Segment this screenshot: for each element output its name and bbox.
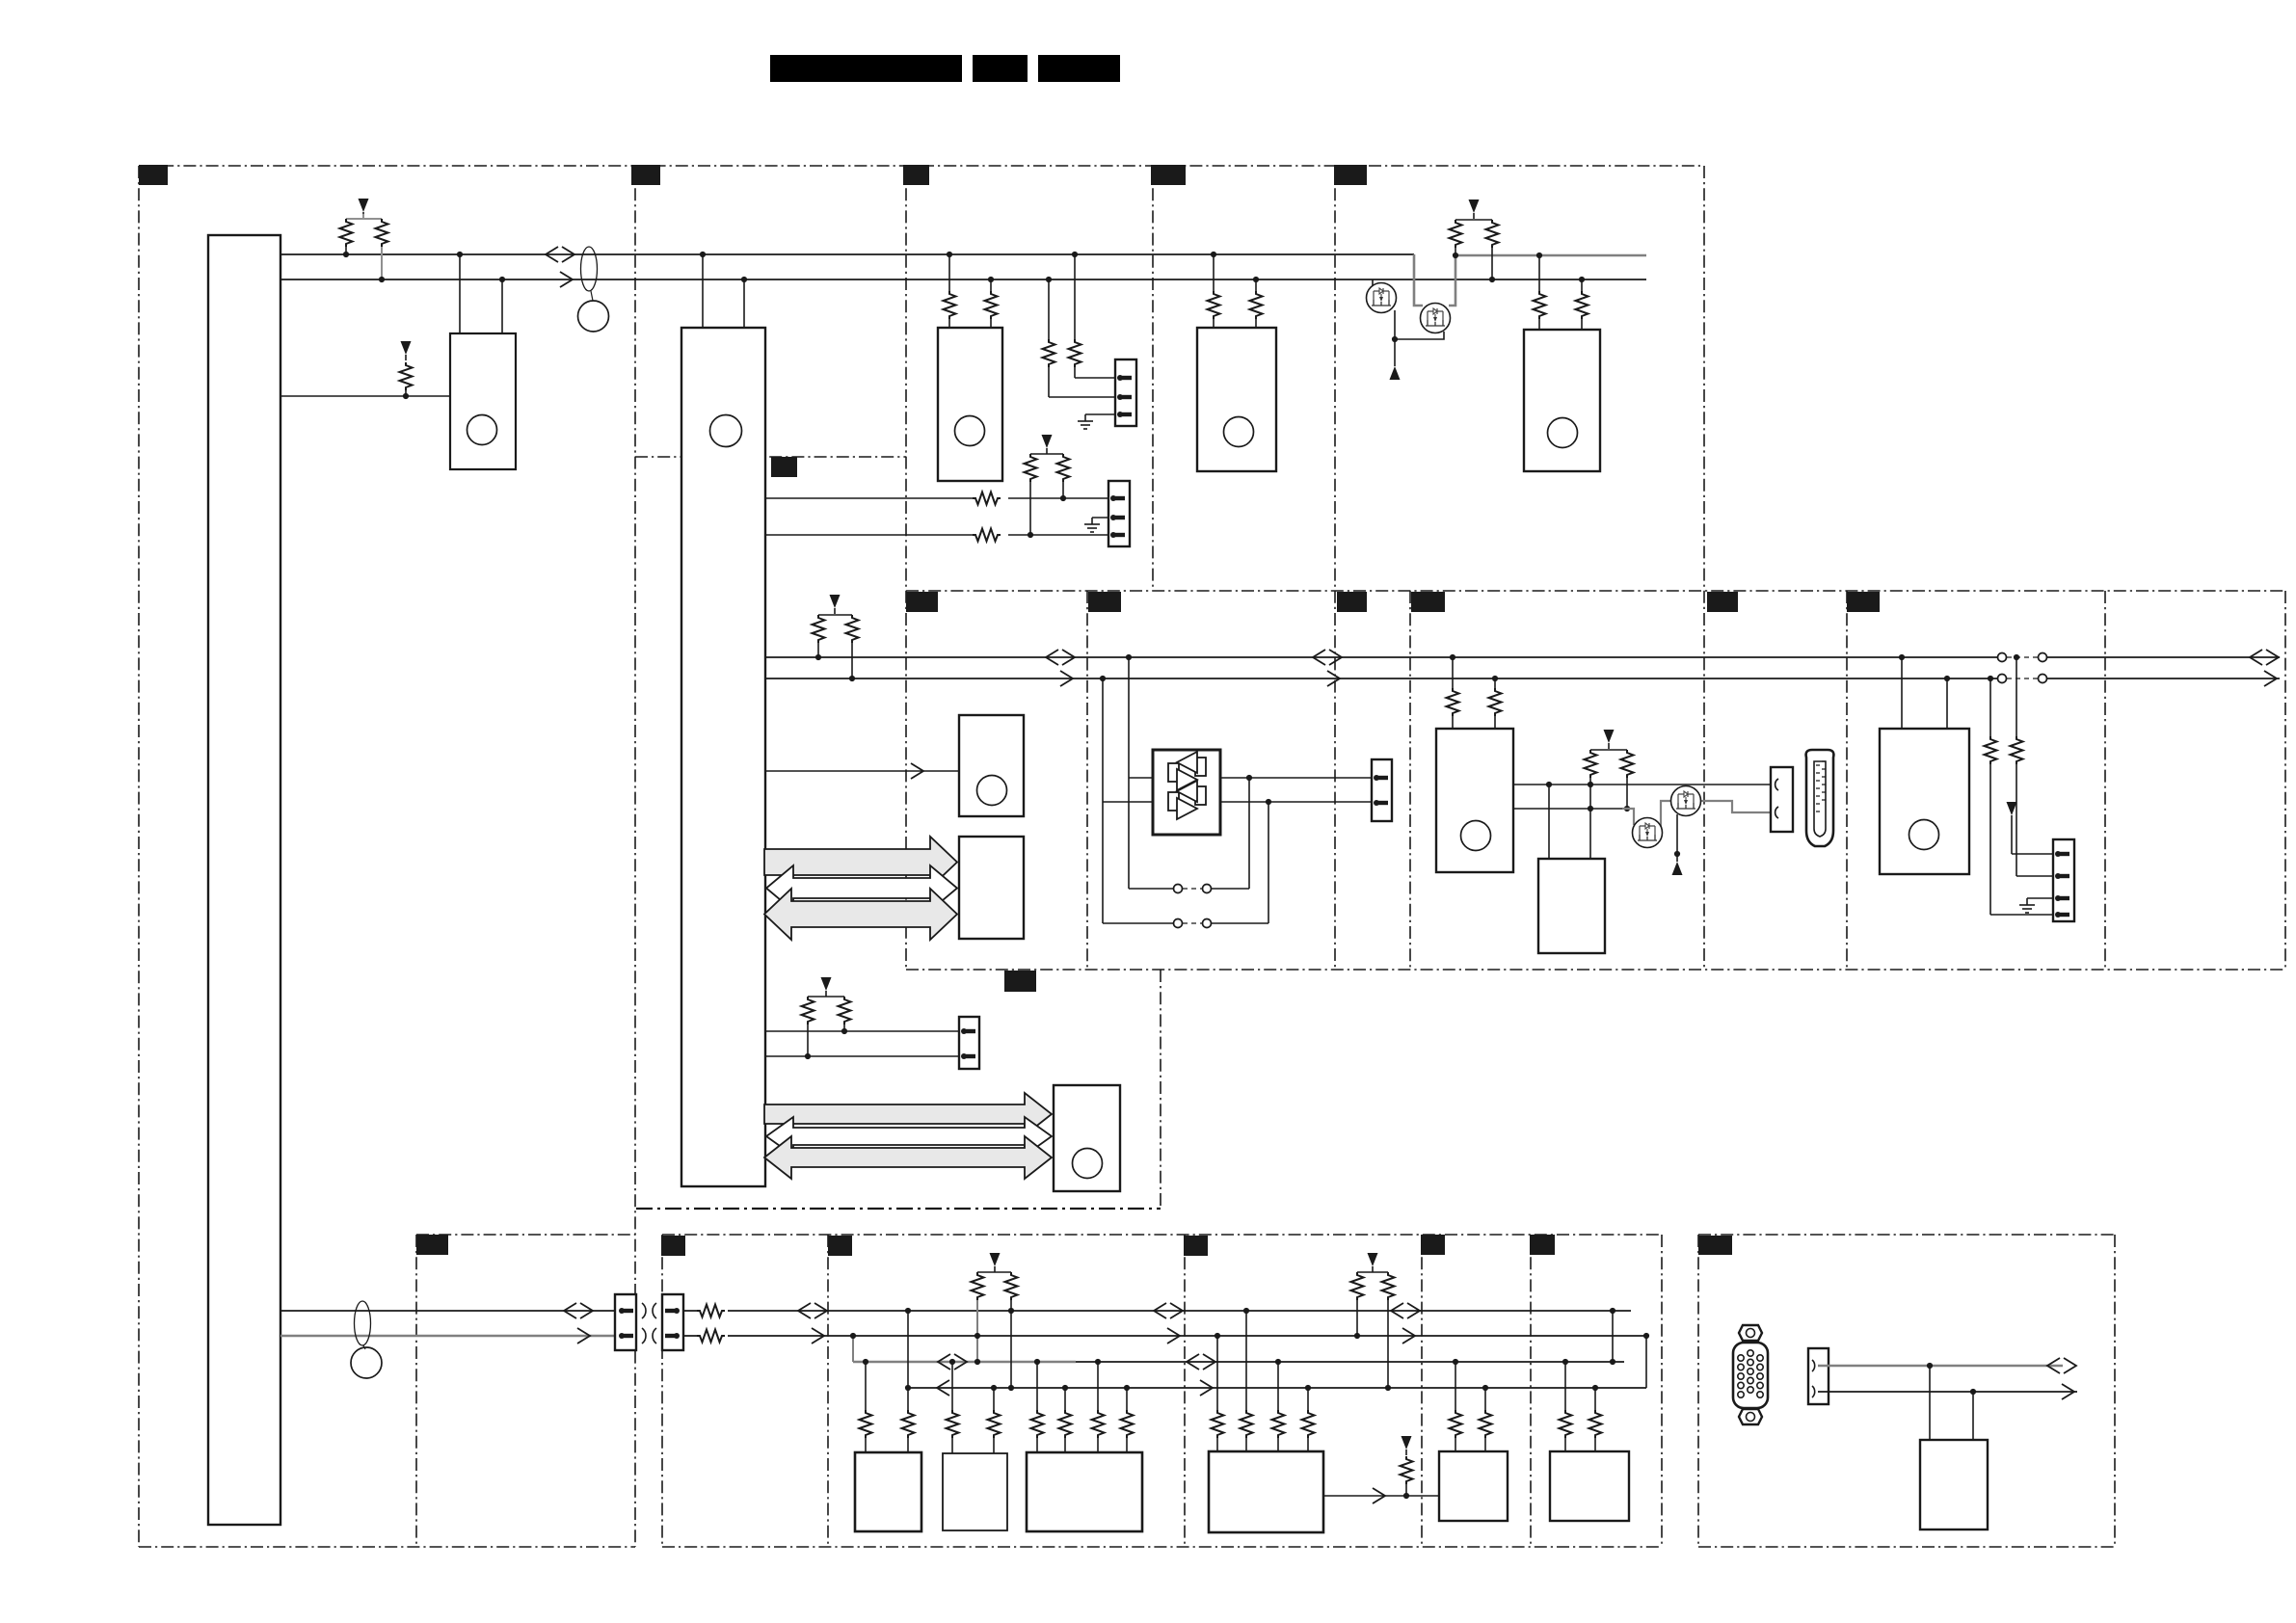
resistor R28 series	[697, 1303, 728, 1318]
wire U13 in1	[1929, 1366, 1931, 1440]
pin U3 circle	[955, 416, 985, 446]
border vertical x1204 audio	[1160, 970, 1161, 1209]
arrow bottom bus bidir A	[564, 1303, 593, 1318]
arrow mid bus bidir A	[1046, 650, 1075, 665]
wire U2 SCL drop	[501, 279, 503, 333]
bus arrow mem control white	[766, 865, 957, 911]
power symbol VS1	[359, 199, 369, 218]
resistor R23	[1621, 750, 1634, 809]
bus arrow audio data	[764, 1136, 1052, 1179]
resistor R9 series	[973, 526, 1008, 544]
node U1 SCL	[741, 277, 747, 282]
marker section B1	[416, 1235, 448, 1255]
bus arrow audio control white	[766, 1117, 1052, 1156]
ic SW3 keypad	[1027, 1452, 1142, 1531]
node bank3 dots	[1034, 1359, 1130, 1391]
resistor R31	[1005, 1272, 1018, 1388]
node R21 bus	[1492, 676, 1498, 681]
wire U13 in2	[1972, 1392, 1974, 1440]
node R20 bus	[1450, 654, 1455, 660]
marker section B2	[828, 1236, 852, 1256]
arrow bottom bus bidir B	[798, 1303, 827, 1318]
node R31 row2	[1008, 1308, 1014, 1391]
marker section4	[1151, 165, 1186, 185]
wire shifter in2	[1103, 678, 1153, 923]
ic U11	[1880, 729, 1969, 874]
arrow key bus in	[937, 1380, 949, 1396]
title bar blocks	[770, 55, 1120, 82]
wire U9 out1	[1513, 784, 1771, 785]
wire Q1 drain link	[1395, 310, 1444, 339]
ic U12 audio amp	[1054, 1085, 1120, 1191]
arrow key bus bidir V15	[1187, 1354, 1215, 1370]
node shifter out1	[1246, 775, 1252, 781]
node bank2 row2	[991, 1385, 997, 1391]
node R17 SCL	[1579, 277, 1585, 282]
resistor R30	[972, 1272, 1012, 1362]
ic U4	[1197, 328, 1276, 471]
wire U10 in2	[1589, 785, 1591, 859]
connector CN3	[1108, 481, 1130, 546]
border vertical x1128	[1086, 591, 1088, 970]
border vertical x1724	[1661, 1235, 1663, 1547]
wire top bus SDA	[280, 253, 1414, 255]
marker section B2 outer	[661, 1236, 685, 1256]
marker section R2D	[1411, 592, 1445, 612]
ground CN2	[1078, 414, 1093, 429]
shield circle TP2	[351, 1345, 382, 1378]
wire shifter out1	[1220, 777, 1372, 779]
ic SW4 keypad	[1209, 1451, 1323, 1532]
connector CN8	[615, 1294, 636, 1350]
wire U11 in2	[1944, 676, 1950, 729]
vga connector J2	[1733, 1325, 1768, 1424]
hdmi receptacle J1	[1806, 750, 1834, 846]
resistor R20	[1447, 657, 1459, 729]
wire U11 in1	[1899, 654, 1905, 729]
ic SW5 keypad	[1439, 1451, 1508, 1521]
wire U1 SDA drop	[702, 254, 704, 328]
node ddc scl	[1970, 1389, 1976, 1395]
node bank1 row1	[863, 1359, 868, 1365]
title redaction bar 1	[770, 55, 962, 82]
wire CN6 gnd	[2027, 897, 2053, 899]
border bottom edge section1	[139, 1546, 635, 1548]
arrow bus SCL out	[560, 272, 573, 287]
keypad resistors bank6	[1560, 1362, 1602, 1451]
arrow bottom bus out A	[577, 1328, 590, 1344]
border vertical x2184	[2104, 591, 2106, 970]
resistor R10	[1025, 454, 1064, 535]
node R3 junction	[403, 393, 409, 399]
marker section2 lower	[771, 457, 797, 477]
resistor R4	[944, 254, 956, 328]
wire CN2 gnd	[1085, 413, 1115, 415]
node Q1 drain	[1392, 336, 1398, 342]
resistor R16	[1534, 255, 1546, 330]
resistor R25	[2011, 657, 2054, 876]
pin U11 circle	[1909, 820, 1939, 850]
arrow ddc out	[2062, 1384, 2074, 1399]
twisted pair symbol TP2	[355, 1301, 371, 1345]
jumper JP1 line1	[1998, 653, 2047, 662]
arrow mid bus out C	[2264, 671, 2277, 686]
resistor R34	[1401, 1456, 1413, 1499]
pin U2 circle	[467, 415, 497, 445]
resistor R12	[1208, 254, 1220, 328]
resistor R27	[839, 997, 851, 1031]
node R26 mute	[805, 1053, 811, 1059]
node shifter in1	[1126, 654, 1132, 660]
wire SW4 to SW5	[1323, 1495, 1439, 1497]
node U9 out1 drop	[1546, 782, 1552, 787]
node R24 bus	[1988, 676, 1993, 681]
title redaction bar 3	[1038, 55, 1120, 82]
wire vga ddc scl	[1818, 1391, 2077, 1393]
connector CN6	[2053, 839, 2074, 921]
wire U1 SCL drop	[743, 279, 745, 328]
arrow ddc bidir	[2047, 1358, 2076, 1373]
wire CN3 gnd	[1092, 517, 1108, 519]
resistor R7	[1043, 279, 1116, 397]
border vertical x940	[905, 166, 907, 970]
wire U1 out A	[765, 497, 1108, 499]
arrow SDA2 bidir V15	[1154, 1303, 1183, 1318]
border vertical x1196	[1152, 166, 1154, 591]
wire bypass row1	[1129, 778, 1249, 893]
wire key tap right2	[1643, 1333, 1649, 1388]
section borders	[139, 166, 2285, 1547]
resistor R6	[1069, 254, 1116, 378]
pin U9 circle	[1461, 821, 1491, 851]
mating pair symbol row1	[642, 1303, 656, 1318]
border vertical x659	[634, 166, 636, 1547]
resistor R19	[846, 615, 859, 678]
supply symbol up Q1	[1390, 339, 1401, 380]
resistor R8 series	[973, 490, 1008, 507]
node U9 out2 drop	[1588, 806, 1593, 811]
marker section R2C	[1337, 592, 1367, 612]
resistor R1	[340, 214, 383, 254]
node U2 SCL tap	[499, 277, 505, 282]
marker section R2A	[906, 592, 938, 612]
wire shifter out2	[1220, 801, 1372, 803]
main board connector CN1	[208, 235, 280, 1525]
ground CN3	[1084, 518, 1100, 532]
node R15 SCL	[1489, 277, 1495, 282]
ic U10	[1538, 859, 1605, 953]
wire Q1 gate stub	[1372, 279, 1374, 285]
marker section R2F	[1847, 592, 1880, 612]
border vertical x2371	[2284, 591, 2286, 970]
arrow mid bus bidir C	[2250, 650, 2279, 665]
marker audio section	[1004, 971, 1036, 992]
resistor R24	[1985, 678, 2054, 915]
node R23 out2	[1624, 806, 1630, 811]
wire U10 in1	[1548, 785, 1550, 859]
transistor Q1	[1367, 283, 1397, 313]
ic SW6 keypad	[1550, 1451, 1629, 1521]
node R6 bus	[1072, 252, 1078, 257]
wire U9 out2	[1513, 808, 1622, 810]
marker section2	[631, 165, 660, 185]
bus arrow audio i2s	[764, 1093, 1052, 1135]
border section2 sub divider	[635, 456, 906, 458]
wire bypass row2	[1103, 802, 1268, 928]
power symbol VS10	[1368, 1253, 1378, 1272]
power symbol VS3	[1042, 435, 1053, 454]
marker section5	[1334, 165, 1367, 185]
node R12 bus	[1211, 252, 1216, 257]
ic SW1 keypad	[855, 1452, 921, 1531]
resistor R5	[985, 279, 998, 328]
border vertical x1229	[1184, 1235, 1186, 1547]
border bottom band top edge right	[1698, 1234, 2115, 1236]
ic U3	[938, 328, 1002, 481]
wire U1 video out	[765, 770, 959, 772]
resistor R15	[1486, 220, 1499, 279]
supply symbol up Q4	[1672, 856, 1683, 875]
marker section3	[903, 165, 929, 185]
border vertical x1463	[1409, 591, 1411, 970]
connector CN7	[959, 1017, 979, 1069]
node R4 bus	[947, 252, 952, 257]
title redaction bar 2	[973, 55, 1028, 82]
wire key tap left2	[905, 1308, 911, 1391]
node R19 line2	[849, 676, 855, 681]
pin U6 circle	[977, 776, 1007, 806]
wire U1 out B	[765, 534, 1108, 536]
resistor R2	[376, 219, 388, 279]
keypad resistors bank2	[947, 1362, 1001, 1453]
keypad resistors bank5	[1450, 1362, 1492, 1451]
transistor Q2	[1421, 304, 1451, 333]
node Q4 bulk	[1674, 851, 1680, 857]
border vertical x1475	[1421, 1235, 1423, 1547]
node R5 bus	[988, 277, 994, 282]
node R1-SDA	[343, 252, 349, 257]
node shifter in2	[1100, 676, 1106, 681]
keypad resistors bank4	[1212, 1311, 1315, 1451]
node bank2 row1	[949, 1359, 955, 1365]
arrow mid bus out A	[1060, 671, 1073, 686]
node R33 row2	[1385, 1385, 1391, 1391]
ic U7 memory	[959, 837, 1024, 939]
resistor R22	[1585, 750, 1628, 785]
wire Q4 bulk	[1676, 814, 1678, 854]
pin U5 circle	[1548, 418, 1578, 448]
ic U1 main processor	[681, 328, 765, 1186]
arrow bottom bus out B	[812, 1328, 824, 1344]
ic U9 hdmi switch	[1436, 729, 1513, 872]
arrow key bus out V15	[1200, 1380, 1213, 1396]
wire U2 input	[280, 395, 450, 397]
node R18 line1	[815, 654, 821, 660]
connector CN9	[662, 1294, 683, 1350]
resistor R18	[813, 615, 853, 657]
border vertical x1385	[1334, 166, 1336, 970]
marker section R2E	[1707, 592, 1738, 612]
border vertical x432	[415, 1235, 417, 1547]
node R2-SCL	[379, 277, 385, 282]
power symbol VS4	[1469, 200, 1480, 219]
wire audio det	[765, 1030, 959, 1032]
content	[208, 199, 2280, 1532]
node U1 SDA	[700, 252, 706, 257]
connector CN2	[1115, 359, 1136, 426]
power symbol VS9	[990, 1253, 1001, 1272]
marker section B6	[1698, 1236, 1732, 1255]
node bank4 dots	[1215, 1308, 1311, 1391]
wire key bus row1 gray	[853, 1361, 1076, 1363]
wire mid bus line1	[765, 656, 2280, 658]
pin U4 circle	[1224, 417, 1254, 447]
bus arrow mem address	[764, 837, 957, 888]
border bottom band top edge mid	[662, 1234, 1662, 1236]
node bank5 dots	[1453, 1359, 1488, 1391]
border vertical x859	[827, 1235, 829, 1547]
arrow key bus bidir	[938, 1354, 967, 1370]
transistor Q3	[1633, 818, 1663, 848]
resistor R13	[1250, 279, 1263, 328]
shield circle TP1	[578, 291, 609, 332]
node R16 rail	[1536, 253, 1542, 258]
marker section B4	[1421, 1235, 1445, 1255]
keypad resistors bank1	[860, 1362, 915, 1452]
wire top bus SCL	[280, 279, 1646, 280]
power symbol VS8	[821, 977, 832, 997]
wire bottom bus SCL2 gray	[280, 1335, 615, 1337]
power symbol VS5	[830, 595, 841, 614]
node U2 SDA tap	[457, 252, 463, 257]
resistor R33	[1382, 1272, 1395, 1388]
connector CN10	[1808, 1348, 1829, 1404]
node bank6 dots	[1562, 1359, 1598, 1391]
border top band top edge	[139, 165, 1704, 167]
transistor Q4	[1671, 786, 1701, 816]
wire hdmi 5v switch path	[1622, 801, 1771, 833]
wire mid bus line2	[765, 678, 2280, 679]
node ddc sda	[1927, 1363, 1933, 1369]
node R22 out1	[1588, 782, 1593, 787]
pin U1 circle	[710, 415, 742, 447]
pin U12 circle	[1073, 1149, 1103, 1179]
border vertical x1916	[1846, 591, 1848, 970]
jumper JP2 line2	[1998, 675, 2047, 683]
node R10 wireB	[1028, 532, 1033, 538]
keypad resistors bank3	[1031, 1362, 1134, 1452]
arrow mid bus out B	[1327, 671, 1340, 686]
power symbol VS7	[2007, 802, 2054, 854]
arrow SCL2 out V15	[1167, 1328, 1180, 1344]
ic U8 level shifter	[1153, 750, 1220, 835]
marker section B5	[1530, 1235, 1555, 1255]
resistor R14	[1450, 220, 1493, 255]
ic U13	[1920, 1440, 1988, 1530]
power symbol VS11	[1402, 1436, 1412, 1455]
wire bottom bus SDA2	[280, 1310, 615, 1312]
node R32 SCL2	[1354, 1333, 1360, 1339]
border vertical x1588	[1530, 1235, 1532, 1547]
marker section1	[139, 165, 168, 185]
arrow video out	[911, 763, 923, 779]
border vertical x2194	[2114, 1235, 2116, 1547]
border vertical x1762	[1697, 1235, 1699, 1547]
arrow mid bus bidir B	[1313, 650, 1342, 665]
arrow SDA2 bidir V16	[1391, 1303, 1420, 1318]
wire VCC switch path	[1414, 254, 1646, 306]
ic U6	[959, 715, 1024, 816]
node R25 bus	[2014, 654, 2019, 660]
node R27 det	[841, 1028, 847, 1034]
wire key tap right1	[1610, 1308, 1615, 1365]
node R13 bus	[1253, 277, 1259, 282]
node R7 bus	[1046, 277, 1052, 282]
wire vga ddc sda gray	[1818, 1365, 2063, 1367]
arrow bus SDA bidir	[546, 247, 574, 262]
wire audio mute	[765, 1055, 959, 1057]
wire bottom SCL2 cont	[683, 1335, 1646, 1337]
mating pair symbol row2	[642, 1328, 656, 1344]
wire bottom SDA2 cont	[683, 1310, 1631, 1312]
border left edge section1	[138, 166, 140, 1547]
resistor R21	[1489, 678, 1502, 729]
border vertical x1768	[1703, 166, 1705, 970]
border bottom edge mid group	[662, 1546, 1662, 1548]
border bottom band top edge left	[416, 1234, 635, 1236]
border middle band bottom edge	[906, 969, 2285, 971]
wire U2 SDA drop	[459, 254, 461, 333]
node R11 wireA	[1060, 495, 1066, 501]
power symbol VS6	[1604, 730, 1615, 749]
wire key tap left1	[850, 1333, 856, 1362]
ground CN6	[2019, 898, 2035, 913]
ic U2	[450, 333, 516, 469]
border audio sub bottom edge	[636, 1208, 1161, 1210]
wire key bus row1 cont	[1076, 1361, 1624, 1363]
connector CN5 hdmi pins	[1771, 767, 1793, 832]
border middle band top edge	[906, 590, 2285, 592]
ic U5	[1524, 330, 1600, 471]
bus arrow mem data	[764, 889, 957, 940]
resistor R26	[802, 997, 845, 1056]
marker section B3	[1184, 1236, 1208, 1256]
connector CN4	[1372, 759, 1392, 821]
resistor R32	[1351, 1272, 1389, 1336]
ic SW2 keypad	[943, 1453, 1007, 1530]
node shifter out2	[1266, 799, 1271, 805]
resistor R3	[400, 362, 413, 396]
resistor R29 series	[697, 1328, 728, 1344]
wire shifter in1	[1129, 657, 1153, 889]
power symbol VS2	[401, 341, 412, 360]
resistor R11	[1057, 454, 1070, 498]
marker section R2B	[1088, 592, 1121, 612]
node R14 rail	[1453, 253, 1458, 258]
resistor R17	[1576, 279, 1589, 330]
node R30 row1	[974, 1333, 980, 1365]
wire key bus row2	[908, 1387, 1646, 1389]
border bottom edge right group	[1698, 1546, 2115, 1548]
border vertical x687	[661, 1235, 663, 1547]
arrow SW4 out	[1373, 1488, 1385, 1503]
markers	[139, 165, 1880, 1256]
twisted pair symbol TP1	[581, 247, 598, 291]
arrow SCL2 out V16	[1402, 1328, 1415, 1344]
